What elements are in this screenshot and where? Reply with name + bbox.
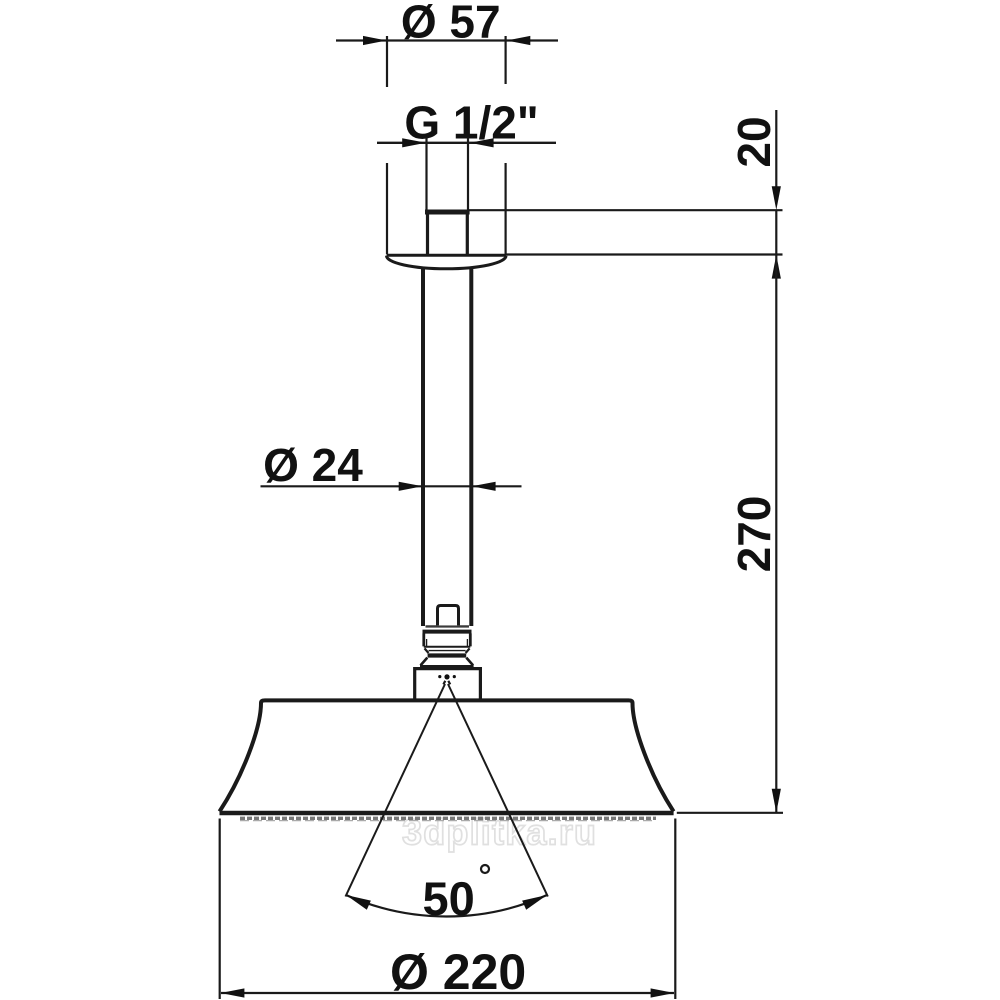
dimension G1/2 line — [377, 142, 556, 144]
svg-text:50: 50 — [423, 872, 475, 925]
dimension 20 line through gap — [775, 211, 777, 254]
ceiling line lower — [505, 253, 783, 255]
dimension 20 vertical line upper — [775, 110, 777, 188]
nut nub — [438, 606, 459, 626]
joint taper — [425, 648, 470, 653]
extension line at shower face right — [677, 812, 783, 814]
dimension Ø57 arrows — [363, 36, 530, 45]
pipe joint line — [426, 625, 470, 627]
dimension Ø24 text — [263, 439, 363, 491]
dimension 20 arrow down — [772, 186, 781, 210]
watermark 3dplitka.ru — [402, 812, 597, 853]
ball joint dark band — [428, 653, 467, 657]
shower head bell — [220, 700, 674, 811]
dimension 270 arrow up — [772, 255, 781, 279]
dimension G1/2 text — [404, 97, 538, 149]
ceiling flange plate top — [387, 254, 507, 257]
spray angle arc — [346, 895, 547, 916]
joint thin line — [429, 650, 466, 652]
dimension G1/2 extension lines — [427, 138, 469, 210]
cone flare sides — [421, 658, 474, 666]
dimension G1/2 arrows — [402, 138, 493, 147]
connector block — [415, 669, 481, 700]
shower arm pipe — [423, 268, 471, 627]
dimension Ø57 line — [336, 39, 558, 41]
dimension Ø24 arrows — [399, 482, 496, 491]
degree symbol — [481, 865, 489, 873]
threaded nipple G1/2 — [428, 213, 468, 255]
svg-text:20: 20 — [728, 116, 780, 167]
nut top edge — [423, 630, 472, 634]
spray arc arrow left — [344, 890, 371, 909]
ceiling line upper — [468, 209, 783, 211]
dimension Ø57 text — [401, 0, 501, 48]
dimension Ø220 extension lines — [220, 819, 676, 1000]
spray angle left line — [346, 684, 446, 897]
svg-text:270: 270 — [728, 496, 780, 573]
cone flare ledge — [420, 665, 474, 667]
nut bottom edge — [424, 646, 471, 648]
dimension Ø220 arrows — [221, 988, 675, 997]
svg-text:Ø 24: Ø 24 — [263, 439, 363, 491]
shower face bottom — [220, 811, 674, 815]
nozzle band — [240, 817, 656, 820]
spray arc arrow right — [522, 890, 549, 909]
dimension 270 text (rotated) — [728, 496, 780, 573]
nut body sides — [424, 633, 471, 646]
dimension 270 arrow down — [772, 789, 781, 813]
spray angle right line — [448, 684, 548, 897]
dimension 270 vertical line — [775, 255, 777, 812]
dimension Ø220 line — [221, 992, 674, 994]
svg-text:G 1/2": G 1/2" — [404, 97, 538, 149]
svg-text:Ø 220: Ø 220 — [390, 944, 526, 1000]
dimension Ø57 extension lines — [387, 36, 506, 254]
dimension Ø24 line — [261, 485, 522, 487]
spray angle 50 text — [423, 872, 475, 925]
dimension 20 text (rotated) — [728, 116, 780, 167]
ceiling flange plate dish — [387, 256, 507, 269]
nut inner ticks — [427, 639, 468, 646]
dimension Ø220 text — [390, 944, 526, 1000]
nozzle dots — [438, 674, 456, 679]
spray vertex marks — [443, 681, 450, 685]
